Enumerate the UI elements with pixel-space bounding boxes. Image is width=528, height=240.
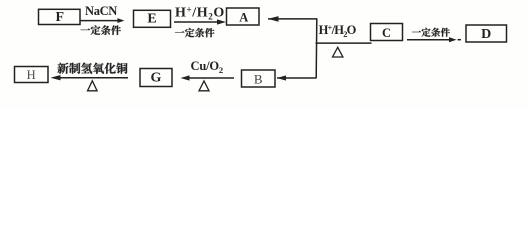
svg-text:Cu/O2: Cu/O2	[191, 59, 223, 75]
box H	[15, 67, 49, 83]
small dash after C-D arrowhead	[458, 39, 462, 41]
box A	[227, 8, 260, 25]
svg-text:F: F	[56, 10, 65, 25]
label yiding-tiaojian under F-E arrow	[80, 25, 120, 35]
wire junction to C	[316, 42, 372, 44]
arrow C branch to A	[268, 16, 317, 22]
label delta under B-G arrow	[199, 81, 209, 91]
label delta under junction-C line	[333, 47, 343, 57]
svg-text:A: A	[239, 11, 248, 25]
arrow F to E (NaCN)	[81, 18, 125, 23]
arrow C to D (yiding-tiaojian)	[407, 37, 457, 42]
arrow G to H (xinzhi qingyanghuatong)	[51, 75, 129, 80]
label yiding-tiaojian over C-D arrow	[412, 28, 450, 37]
arrow B to G (Cu/O2)	[181, 75, 235, 80]
arrow E to A (H+/H2O)	[174, 19, 226, 24]
box F	[39, 9, 81, 25]
svg-text:G: G	[151, 71, 162, 86]
svg-text:C: C	[382, 26, 391, 40]
box B	[242, 70, 276, 87]
arrow C branch to B	[277, 75, 317, 80]
label delta under G-H arrow	[88, 81, 98, 91]
svg-text:H+/H2O: H+/H2O	[175, 4, 225, 21]
svg-text:D: D	[481, 27, 491, 42]
box G	[140, 69, 172, 87]
box D	[466, 25, 507, 42]
svg-text:H+/H2O: H+/H2O	[319, 22, 357, 38]
box E	[134, 10, 171, 27]
label yiding-tiaojian under E-A arrow	[175, 28, 215, 37]
svg-text:NaCN: NaCN	[85, 4, 117, 18]
label xinzhi-qingyanghuatong over G-H arrow	[57, 63, 127, 74]
svg-text:E: E	[147, 11, 156, 26]
box C	[371, 24, 403, 41]
svg-text:B: B	[254, 72, 263, 87]
svg-text:H: H	[27, 68, 36, 82]
wire vertical branch line	[315, 18, 318, 78]
